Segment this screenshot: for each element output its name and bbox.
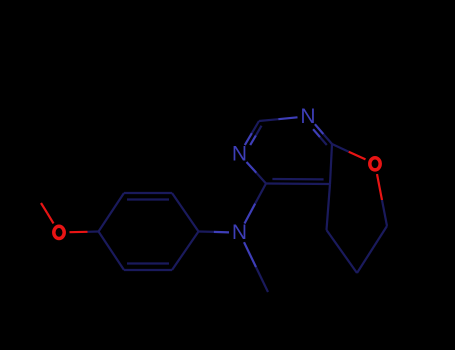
svg-text:N: N (232, 221, 247, 244)
svg-text:N: N (232, 143, 247, 166)
svg-text:N: N (300, 105, 315, 128)
